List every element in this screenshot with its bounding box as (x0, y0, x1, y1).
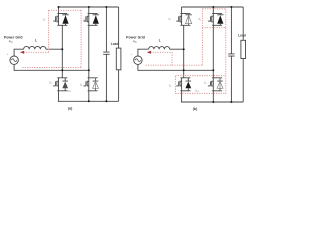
svg-text:Power Grid: Power Grid (126, 36, 145, 40)
svg-text:S2: S2 (83, 19, 86, 22)
svg-text:Power Grid: Power Grid (4, 36, 23, 40)
svg-text:S1: S1 (168, 18, 171, 21)
svg-text:S3: S3 (169, 85, 172, 88)
svg-text:-: - (132, 65, 133, 69)
svg-text:Load: Load (238, 33, 246, 37)
svg-text:L: L (159, 38, 161, 42)
svg-text:-: - (8, 65, 9, 69)
svg-text:S1: S1 (43, 19, 46, 22)
svg-text:+: + (130, 53, 132, 56)
svg-text:S3: S3 (49, 82, 52, 85)
svg-text:SD2: SD2 (195, 90, 199, 93)
svg-text:+: + (7, 53, 9, 56)
svg-text:(a): (a) (68, 107, 73, 111)
svg-text:(b): (b) (193, 107, 198, 111)
svg-text:S4: S4 (204, 82, 207, 85)
svg-text:L: L (35, 38, 37, 42)
svg-text:S4: S4 (80, 84, 83, 87)
svg-text:SD2: SD2 (67, 90, 71, 93)
svg-text:Load: Load (111, 42, 119, 46)
svg-text:S2: S2 (198, 18, 201, 21)
